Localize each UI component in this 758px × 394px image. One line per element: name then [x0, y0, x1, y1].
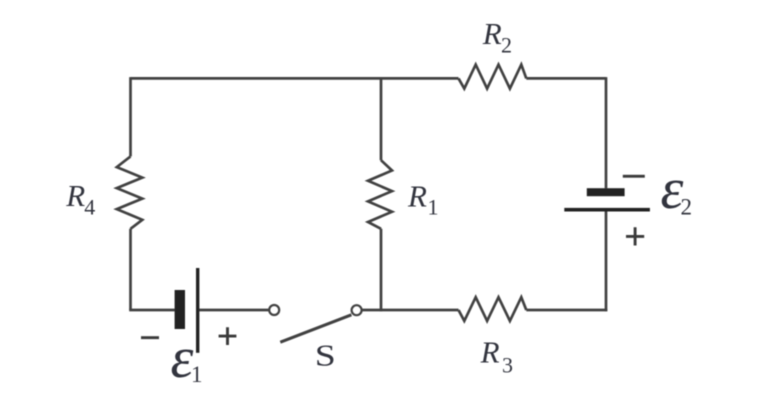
resistor R4 zigzag	[117, 156, 143, 228]
wire middle lower vertical	[380, 229, 383, 311]
resistor R1 zigzag	[368, 160, 392, 229]
svg-text:2: 2	[681, 195, 693, 220]
switch S lever arm	[280, 315, 351, 342]
svg-text:S: S	[315, 339, 336, 373]
battery E2 minus sign	[623, 175, 645, 178]
wire top horizontal left of R2	[131, 77, 459, 80]
wire middle upper vertical	[380, 78, 383, 160]
battery E2 negative plate (short thick)	[587, 188, 625, 196]
wire from battery E1 to left switch contact	[199, 309, 269, 312]
wire bottom from left corner to battery E1	[129, 309, 175, 312]
svg-text:R: R	[407, 179, 427, 214]
battery E1 minus sign	[141, 336, 159, 339]
wire left upper vertical	[129, 77, 132, 156]
svg-text:R: R	[480, 335, 500, 370]
svg-text:R: R	[65, 178, 85, 213]
battery E2 plus sign	[626, 227, 644, 245]
wire left lower vertical	[129, 229, 132, 310]
svg-text:4: 4	[84, 195, 95, 220]
svg-text:1: 1	[428, 195, 439, 220]
battery E1 negative plate (short thick)	[175, 290, 185, 329]
wire from right switch contact to node under R1	[362, 309, 459, 312]
switch S left contact circle	[269, 305, 279, 315]
wire right upper vertical	[605, 77, 608, 188]
svg-text:1: 1	[191, 362, 203, 387]
battery E2 positive plate (long thin)	[564, 208, 650, 212]
svg-text:3: 3	[502, 353, 513, 378]
svg-text:2: 2	[501, 33, 512, 58]
switch S right contact circle	[352, 305, 362, 315]
svg-text:R: R	[482, 16, 502, 51]
wire right lower vertical	[605, 211, 608, 311]
battery E1 positive plate (long thin)	[196, 268, 199, 353]
resistor R2 zigzag	[459, 65, 527, 89]
wire from R3 to bottom-right corner	[526, 309, 607, 312]
resistor R3 zigzag	[459, 297, 527, 321]
wire top horizontal right of R2	[526, 77, 606, 80]
battery E1 plus sign	[219, 327, 237, 345]
